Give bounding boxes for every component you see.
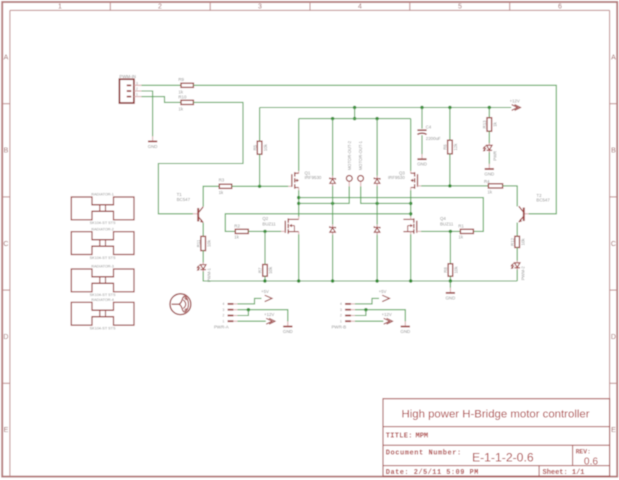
svg-text:R10: R10 [178, 94, 187, 99]
frame column dividers [110, 2, 509, 10]
PWR-A pin stubs [233, 304, 237, 321]
wire C4 to GND [421, 135, 423, 154]
Q3 gate pin stub [418, 185, 422, 187]
svg-text:R6: R6 [443, 144, 448, 150]
svg-text:4: 4 [223, 302, 225, 306]
wire R13 to LED PWR [488, 131, 490, 143]
wire PWR-B pin4 to +5V [355, 298, 379, 304]
ground GND PWR-A [283, 321, 293, 334]
svg-text:+12V: +12V [382, 312, 392, 317]
wire R7 to ground rail [264, 276, 266, 281]
junction Q4 gate / R8 [449, 230, 452, 233]
PWR-B pin stubs [351, 304, 355, 321]
junction R5 / Q1 gate [258, 185, 261, 188]
svg-text:+12V: +12V [510, 98, 520, 103]
pin MOTOR-OUT-2 [346, 140, 352, 181]
svg-text:R5: R5 [252, 144, 257, 150]
svg-text:SK104-ST STS: SK104-ST STS [90, 327, 116, 331]
wire left node to R1 [299, 198, 484, 232]
resistor R10 [178, 94, 193, 104]
field Date [386, 469, 479, 477]
T1 base pin stub [193, 213, 197, 215]
svg-text:1k: 1k [178, 107, 183, 112]
svg-text:GND: GND [417, 162, 427, 167]
svg-text:REV:: REV: [576, 449, 591, 456]
wire MOSFET source rail [299, 118, 411, 120]
wire R11 to LED PWM-1 [202, 251, 204, 263]
heatsink RADIATOR-2 [71, 227, 134, 260]
resistor R7 [258, 265, 268, 277]
wire R8 to ground rail [449, 276, 451, 281]
junction diode D1 top [331, 117, 334, 120]
wire D3 cathode [376, 119, 378, 176]
svg-text:R4: R4 [484, 179, 490, 184]
svg-text:R3: R3 [219, 177, 225, 182]
svg-text:E: E [611, 427, 616, 434]
wire +12V to R13 [488, 108, 490, 118]
svg-text:SK104-ST STS: SK104-ST STS [90, 221, 116, 225]
wire LED PWM-1 to ground rail [203, 272, 265, 281]
R11 value 10k [206, 239, 211, 247]
field Sheet [543, 469, 585, 477]
R13 value 1k [493, 121, 498, 126]
junction ground rail Q2 source [297, 279, 300, 282]
revision value 0.6 [584, 456, 598, 467]
junction left node / R1 feed [297, 196, 300, 199]
svg-text:GND: GND [446, 295, 456, 300]
svg-text:MPM: MPM [416, 432, 429, 440]
pin MOTOR-OUT-1 [358, 140, 364, 181]
svg-text:1k: 1k [487, 190, 492, 195]
wire Q4 gate to R1 [421, 230, 460, 232]
svg-text:B: B [611, 148, 616, 155]
frame column labels 1-6 [58, 4, 562, 11]
heatsink RADIATOR-4 [71, 298, 134, 331]
svg-text:RADIATOR-1: RADIATOR-1 [91, 193, 114, 197]
junction ground rail R8/GND [449, 279, 452, 282]
connector PWR-A [214, 303, 233, 330]
Q4 source pin stub [410, 232, 412, 235]
resistor R12 [510, 236, 520, 247]
junction ground rail D4 [375, 279, 378, 282]
wire D1 cathode [332, 119, 334, 176]
resistor R3 [219, 177, 232, 188]
wire PWR-A pin1 to +12V [238, 320, 266, 322]
svg-text:12k: 12k [453, 143, 458, 151]
svg-text:E: E [4, 427, 9, 434]
svg-text:BC547: BC547 [536, 198, 550, 203]
wire R5 to Q1 gate node [259, 154, 261, 186]
C4 value 2200uF [426, 136, 441, 141]
svg-text:6: 6 [558, 4, 562, 11]
junction PWR-A +12V pins join [247, 308, 250, 311]
wire R10 to T1 base [158, 102, 243, 213]
supply +5V PWR-A [261, 289, 272, 302]
junction right node / diode D3-D4 [375, 202, 378, 205]
svg-text:+12V: +12V [264, 312, 274, 317]
wire D2 cathode [332, 203, 334, 224]
svg-text:R7: R7 [258, 267, 263, 273]
wire D4 anode to ground rail [376, 235, 378, 281]
Q1 gate pin stub [288, 185, 292, 187]
wire T2 emitter to R12 [516, 223, 518, 237]
svg-text:MOTOR-OUT-1: MOTOR-OUT-1 [358, 140, 363, 170]
wire D3 anode to right node [376, 186, 378, 203]
Q3 source pin stub [410, 171, 412, 174]
R6 value 12k [453, 143, 458, 151]
wire source rail to Q1 source [298, 119, 300, 171]
transistor Q1 (IRF9530 MOSFET) [292, 170, 322, 188]
wire Q3 gate to R4 [421, 185, 488, 187]
wire right node to MOTOR-OUT-1 [361, 186, 411, 203]
svg-text:Sheet: 1/1: Sheet: 1/1 [543, 469, 585, 477]
ground GND LED PWR [484, 164, 494, 177]
wire PWR-B pin3 to GND [355, 310, 405, 322]
wire Q2 source to ground rail [298, 234, 300, 281]
PWM-IN pin stubs [134, 85, 142, 96]
resistor R6 [443, 140, 453, 154]
Q3 drain pin stub [410, 188, 412, 191]
svg-text:PWM-IN: PWM-IN [119, 74, 136, 79]
wire PWM-IN pin1 to R10 [142, 97, 182, 103]
svg-text:3: 3 [340, 308, 342, 312]
supply +12V PWR-A [264, 312, 275, 324]
svg-text:C: C [3, 241, 8, 248]
transistor Q3 (IRF9530 MOSFET) [388, 170, 418, 188]
wire Q3 drain to Q4 drain [410, 190, 412, 216]
wire R6 to Q3 gate node [449, 154, 451, 186]
wire rail +12V to R5 [259, 108, 261, 142]
svg-text:A: A [4, 54, 9, 61]
junction source rail feed [353, 117, 356, 120]
wire R9 to T2 base [193, 85, 556, 214]
transistor Q2 (BUZ11 MOSFET) [262, 216, 298, 234]
wire LED PWM-2 to ground rail [516, 270, 518, 281]
junction ground rail D2 [331, 279, 334, 282]
Q4 gate pin stub [417, 230, 421, 232]
R10 value 1k [178, 107, 183, 112]
Q2 gate pin stub [281, 230, 285, 232]
svg-text:RADIATOR-3: RADIATOR-3 [91, 265, 114, 269]
svg-text:SK104-ST STS: SK104-ST STS [90, 256, 116, 260]
wire Q4 source to ground rail [410, 234, 412, 281]
junction +12V rail to R6 [448, 106, 451, 109]
svg-text:10k: 10k [268, 266, 273, 274]
wire +12V to R6 [449, 108, 451, 141]
junction +12V rail to bridge [353, 106, 356, 109]
svg-text:GND: GND [484, 171, 494, 176]
wire R4 to T2 collector [503, 186, 518, 207]
junction +12V rail to C4 [420, 106, 423, 109]
R1 value 1k [458, 235, 463, 240]
svg-text:1: 1 [340, 319, 342, 323]
svg-text:R13: R13 [482, 120, 487, 129]
Q4 drain pin stub [410, 217, 412, 220]
svg-text:R1: R1 [458, 223, 464, 228]
wire PWR-B pin2 [355, 310, 366, 316]
supply +12V main [510, 98, 521, 110]
resistor R5 [252, 141, 262, 154]
svg-text:BC547: BC547 [177, 197, 191, 202]
resistor R1 [458, 223, 473, 233]
R12 value 10k [520, 238, 525, 246]
svg-text:1k: 1k [234, 235, 239, 240]
heatsink RADIATOR-1 [71, 193, 134, 226]
svg-text:E-1-1-2-0.6: E-1-1-2-0.6 [472, 451, 534, 465]
wire right node to R2 [225, 214, 410, 232]
ground GND PWR-B [400, 321, 410, 334]
svg-text:PWR-A: PWR-A [214, 325, 229, 330]
svg-text:B: B [4, 148, 9, 155]
svg-text:R9: R9 [178, 77, 184, 82]
supply +5V PWR-B [379, 289, 390, 302]
wire PWR-B pin1 to +12V [355, 320, 383, 322]
wire R7 top [264, 231, 266, 264]
junction ground rail Q4 source [409, 279, 412, 282]
svg-text:GND: GND [400, 329, 410, 334]
svg-text:2: 2 [340, 314, 342, 318]
junction right node / motor out 1 [409, 202, 412, 205]
junction left node / motor out 2 [297, 202, 300, 205]
LED LED3 [483, 143, 492, 152]
svg-text:D: D [3, 334, 8, 341]
LED LED1 [197, 262, 206, 271]
svg-text:10k: 10k [263, 143, 268, 151]
wire D4 cathode [376, 203, 378, 224]
wire PWM-IN pin2 to GND [142, 91, 153, 136]
transistor Q4 (BUZ11 MOSFET) [403, 216, 453, 234]
field Document Number [386, 449, 462, 457]
svg-text:SK104-ST STS: SK104-ST STS [90, 293, 116, 297]
R7 value 10k [268, 266, 273, 274]
frame row labels A-E [3, 54, 616, 434]
svg-text:IRF9530: IRF9530 [388, 175, 405, 180]
wire PWR-A pin4 to +5V [238, 298, 262, 304]
svg-text:10k: 10k [454, 266, 459, 274]
LED3 label PWR [492, 151, 497, 161]
junction +12V rail to R13 [488, 106, 491, 109]
wire +12V to C4 [421, 108, 423, 129]
wire PWM-IN pin3 to R9 [142, 84, 182, 86]
junction right node / R2 feed [409, 212, 412, 215]
MOTOR-OUT-2 pin stub [348, 182, 350, 187]
PWR-A pin numbers [223, 302, 225, 323]
wire source rail to Q3 source [410, 119, 412, 171]
svg-text:2200uF: 2200uF [426, 136, 441, 141]
connector PWR-B [332, 303, 351, 330]
wire T1 emitter to R11 [202, 223, 204, 237]
junction ground rail R7 [263, 279, 266, 282]
svg-text:0.6: 0.6 [584, 456, 598, 467]
heatsink RADIATOR-3 [71, 265, 134, 298]
field REV [576, 449, 591, 456]
svg-text:D: D [611, 334, 616, 341]
ground GND C4 [417, 154, 427, 167]
T2 base pin stub [525, 213, 529, 215]
title text [401, 409, 589, 421]
diode D3 [374, 176, 380, 186]
PWM-IN pin numbers [136, 81, 138, 96]
wire left node to MOTOR-OUT-2 [299, 186, 350, 203]
resistor R13 [482, 118, 492, 132]
svg-text:1: 1 [58, 4, 62, 11]
R8 value 10k [454, 266, 459, 274]
wire Q1 drain to Q2 drain [298, 190, 300, 216]
svg-text:Date: 2/5/11 5:09 PM: Date: 2/5/11 5:09 PM [386, 469, 479, 477]
resistor R8 [443, 264, 453, 276]
wire R3 to Q1 gate [232, 185, 289, 187]
svg-text:10k: 10k [206, 239, 211, 247]
resistor R9 [178, 77, 193, 87]
Q2 source pin stub [298, 232, 300, 235]
wire R2 to Q2 gate [248, 230, 281, 232]
resistor R2 [234, 223, 248, 233]
R5 value 10k [263, 143, 268, 151]
svg-text:1: 1 [223, 319, 225, 323]
svg-text:GND: GND [148, 144, 158, 149]
ground GND near PWM-IN [148, 136, 158, 149]
svg-text:PWM-1: PWM-1 [207, 267, 212, 282]
wire D2 anode to ground rail [332, 235, 334, 281]
wire PWR-A pin3 to GND [238, 310, 288, 322]
connector PWM-IN [119, 74, 136, 103]
diode D2 [330, 225, 336, 235]
resistor R4 [484, 179, 503, 188]
junction diode D3 top [375, 117, 378, 120]
svg-text:Document Number:: Document Number: [386, 449, 462, 457]
wire ground rail [203, 280, 517, 282]
R3 value 1k [219, 190, 224, 195]
frame row dividers [2, 104, 617, 384]
svg-text:High power H-Bridge motor cont: High power H-Bridge motor controller [401, 409, 589, 421]
svg-text:3: 3 [258, 4, 262, 11]
svg-text:C4: C4 [426, 125, 432, 130]
wire +12V rail to source rail [354, 108, 356, 119]
logo [170, 294, 191, 315]
wire +12V rail [260, 107, 512, 109]
junction PWR-B +12V pins join [364, 308, 367, 311]
svg-text:C: C [611, 241, 616, 248]
ground GND main [446, 288, 456, 301]
svg-text:3: 3 [223, 308, 225, 312]
resistor R11 [196, 236, 206, 250]
svg-text:BUZ11: BUZ11 [262, 221, 276, 226]
svg-text:GND: GND [283, 329, 293, 334]
junction Q2 gate / R7 [263, 230, 266, 233]
LED1 label PWM-1 [207, 267, 212, 282]
svg-text:PWM-2: PWM-2 [521, 266, 526, 281]
svg-text:IRF9530: IRF9530 [305, 175, 322, 180]
PWR-B pin numbers [340, 302, 342, 323]
svg-text:R11: R11 [196, 239, 201, 247]
svg-text:BUZ11: BUZ11 [440, 221, 454, 226]
wire R8 top [449, 231, 451, 263]
document number value E-1-1-2-0.6 [472, 451, 534, 465]
svg-text:2: 2 [223, 314, 225, 318]
diode D4 [374, 225, 380, 235]
supply +12V PWR-B [382, 312, 393, 324]
wire LED PWR to GND [488, 152, 490, 164]
junction left node / diode D1-D2 [331, 202, 334, 205]
wire ground rail to GND [449, 281, 451, 288]
transistor T2 (BC547 NPN) [519, 193, 551, 222]
svg-text:RADIATOR-2: RADIATOR-2 [91, 227, 114, 231]
junction Q3 gate / R6 [448, 184, 451, 187]
Q1 source pin stub [298, 171, 300, 174]
svg-text:RADIATOR-4: RADIATOR-4 [91, 298, 114, 302]
svg-text:+5V: +5V [379, 289, 387, 294]
svg-text:R8: R8 [443, 267, 448, 273]
svg-text:R12: R12 [510, 237, 515, 246]
svg-text:4: 4 [358, 4, 362, 11]
MOTOR-OUT-1 pin stub [360, 182, 362, 187]
wire PWR-A pin2 [238, 310, 249, 316]
svg-text:4: 4 [340, 302, 342, 306]
svg-text:PWR-B: PWR-B [332, 325, 347, 330]
field TITLE: MPM [386, 432, 428, 440]
svg-text:R2: R2 [234, 223, 240, 228]
svg-text:+5V: +5V [261, 289, 269, 294]
LED LED2 [511, 261, 520, 270]
svg-text:5: 5 [458, 4, 462, 11]
svg-text:1k: 1k [493, 121, 498, 126]
Q2 drain pin stub [298, 217, 300, 220]
transistor T1 (BC547 NPN) [177, 192, 204, 222]
svg-text:1k: 1k [458, 235, 463, 240]
R9 value 1k [178, 90, 183, 95]
svg-text:MOTOR-OUT-2: MOTOR-OUT-2 [347, 140, 352, 170]
svg-text:TITLE:: TITLE: [386, 432, 413, 440]
capacitor C4 [417, 125, 431, 135]
svg-text:2: 2 [158, 4, 162, 11]
LED2 label PWM-2 [521, 266, 526, 281]
R2 value 1k [234, 235, 239, 240]
svg-text:A: A [611, 54, 616, 61]
svg-text:PWR: PWR [492, 151, 497, 161]
wire T1 collector to R3 [203, 186, 219, 206]
title block box [383, 399, 610, 476]
wire R12 to LED PWM-2 [516, 248, 518, 261]
R4 value 1k [487, 190, 492, 195]
diode D1 [330, 176, 336, 186]
wire D1 anode to left node [332, 186, 334, 203]
svg-text:10k: 10k [520, 238, 525, 246]
Q1 drain pin stub [298, 188, 300, 191]
svg-text:1k: 1k [219, 190, 224, 195]
